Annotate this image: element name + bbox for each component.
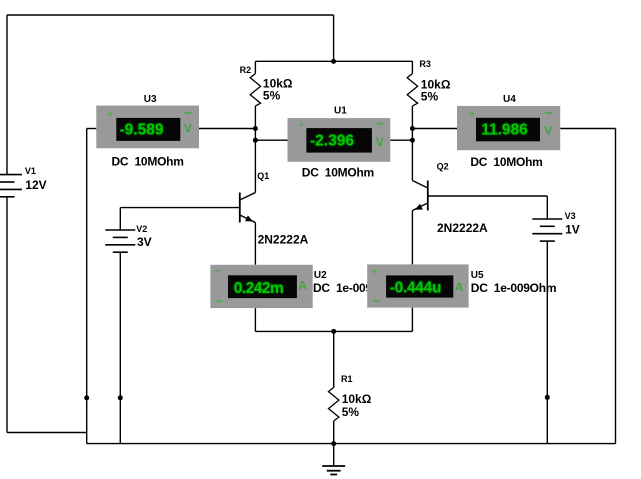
- wire V3 to Q2 base: [428, 195, 548, 197]
- wire V1 bottom horizontal: [7, 432, 87, 434]
- node U1 left junction: [253, 138, 258, 143]
- wire Q2 emitter to U5: [411, 211, 413, 265]
- svg-text:10kΩ: 10kΩ: [342, 392, 372, 406]
- svg-text:V1: V1: [25, 166, 36, 176]
- svg-text:-9.589: -9.589: [120, 121, 164, 138]
- resistor R1: [329, 374, 372, 421]
- wire U3 right to Q1 collector: [199, 128, 255, 130]
- wire U4 right: [560, 128, 615, 130]
- svg-text:U2: U2: [314, 270, 327, 281]
- resistor R2: [240, 65, 293, 106]
- svg-text:-0.444u: -0.444u: [390, 279, 441, 296]
- svg-text:V3: V3: [565, 211, 576, 221]
- node R1 top junction: [331, 329, 336, 334]
- wire ground stub: [333, 444, 335, 466]
- svg-text:V: V: [544, 123, 552, 137]
- wire R3 top lead: [411, 61, 413, 73]
- svg-text:12V: 12V: [25, 178, 46, 192]
- wire top node vertical: [333, 15, 335, 61]
- svg-text:+: +: [108, 109, 114, 120]
- battery V2: [105, 224, 151, 252]
- wire V3 bottom lead: [546, 241, 548, 444]
- ground: [322, 466, 345, 475]
- multimeter U2: [210, 265, 398, 308]
- svg-text:-2.396: -2.396: [310, 132, 354, 149]
- svg-text:R2: R2: [240, 65, 252, 75]
- svg-text:+: +: [215, 266, 221, 277]
- svg-text:+: +: [469, 109, 475, 120]
- node top junction: [331, 59, 336, 64]
- svg-text:V: V: [376, 135, 384, 149]
- wire V2 top lead: [119, 208, 121, 230]
- svg-text:2N2222A: 2N2222A: [437, 221, 488, 235]
- node on V2 vertical: [118, 395, 123, 400]
- svg-text:U1: U1: [334, 106, 347, 117]
- svg-text:U5: U5: [471, 270, 484, 281]
- wire R1 top lead: [333, 331, 335, 387]
- node U1 right junction: [410, 138, 415, 143]
- wire bottom ground bus: [87, 443, 616, 445]
- node on U3 vertical: [84, 395, 89, 400]
- svg-text:R1: R1: [341, 374, 353, 384]
- svg-text:V: V: [184, 122, 192, 136]
- svg-text:U3: U3: [144, 94, 157, 105]
- svg-text:2N2222A: 2N2222A: [258, 232, 309, 246]
- wire emitter bus horizontal: [255, 330, 412, 332]
- multimeter U3: [96, 94, 199, 169]
- wire R1 bottom lead: [333, 421, 335, 444]
- wire U2 bottom lead: [254, 308, 256, 331]
- resistor R3: [407, 59, 451, 106]
- transistor Q1: [240, 171, 309, 246]
- wire V1 negative lead vertical: [6, 197, 8, 433]
- svg-text:Q2: Q2: [437, 162, 449, 172]
- svg-text:U4: U4: [503, 94, 516, 105]
- svg-text:DC 10MOhm: DC 10MOhm: [112, 155, 184, 169]
- battery V3: [532, 211, 579, 241]
- svg-text:3V: 3V: [137, 235, 152, 249]
- multimeter U1: [288, 106, 391, 180]
- battery V1: [0, 166, 47, 197]
- svg-text:DC 10MOhm: DC 10MOhm: [302, 166, 374, 180]
- node ground junction: [331, 441, 336, 446]
- wire U1 right: [390, 139, 412, 141]
- node U3/R2 junction: [253, 126, 258, 131]
- svg-text:1V: 1V: [565, 223, 580, 237]
- svg-text:A: A: [455, 280, 464, 294]
- wire U3 left stub: [87, 128, 97, 130]
- wire R2 top lead: [254, 61, 256, 73]
- wire V2 bottom lead: [119, 252, 121, 443]
- svg-text:11.986: 11.986: [481, 122, 528, 139]
- svg-text:0.242m: 0.242m: [234, 280, 284, 297]
- wire R3 bottom lead / Q2 collector: [411, 106, 413, 181]
- svg-text:DC 1e-009Ohm: DC 1e-009Ohm: [471, 281, 556, 295]
- wire R2 bottom lead / Q1 collector: [254, 106, 256, 193]
- svg-text:DC 10MOhm: DC 10MOhm: [470, 155, 542, 169]
- wire V3 top lead: [546, 196, 548, 219]
- transistor Q2: [412, 162, 488, 235]
- svg-text:5%: 5%: [263, 89, 281, 103]
- wire V2 to Q1 base: [120, 207, 240, 209]
- wire right edge vertical: [615, 129, 617, 444]
- wire Q1 emitter to U2: [254, 223, 256, 265]
- svg-text:Q1: Q1: [257, 171, 269, 181]
- svg-text:5%: 5%: [421, 89, 439, 103]
- svg-text:R3: R3: [419, 59, 431, 69]
- wire U4 left: [412, 128, 457, 130]
- wire U5 bottom lead: [411, 308, 413, 332]
- wire V1 positive lead: [6, 15, 8, 175]
- node U4/R3 junction: [410, 126, 415, 131]
- wire R2 to R3 top rail: [255, 60, 412, 62]
- node on V3 vertical: [545, 395, 550, 400]
- svg-text:V2: V2: [136, 224, 147, 234]
- svg-text:+: +: [372, 267, 378, 278]
- multimeter U5: [367, 264, 556, 307]
- svg-text:+: +: [299, 120, 305, 131]
- wire U3 left vertical: [86, 129, 88, 444]
- svg-text:A: A: [298, 279, 307, 293]
- wire V1 top to top node: [7, 14, 334, 16]
- multimeter U4: [457, 94, 560, 169]
- svg-text:5%: 5%: [342, 405, 360, 419]
- wire U1 left: [255, 139, 287, 141]
